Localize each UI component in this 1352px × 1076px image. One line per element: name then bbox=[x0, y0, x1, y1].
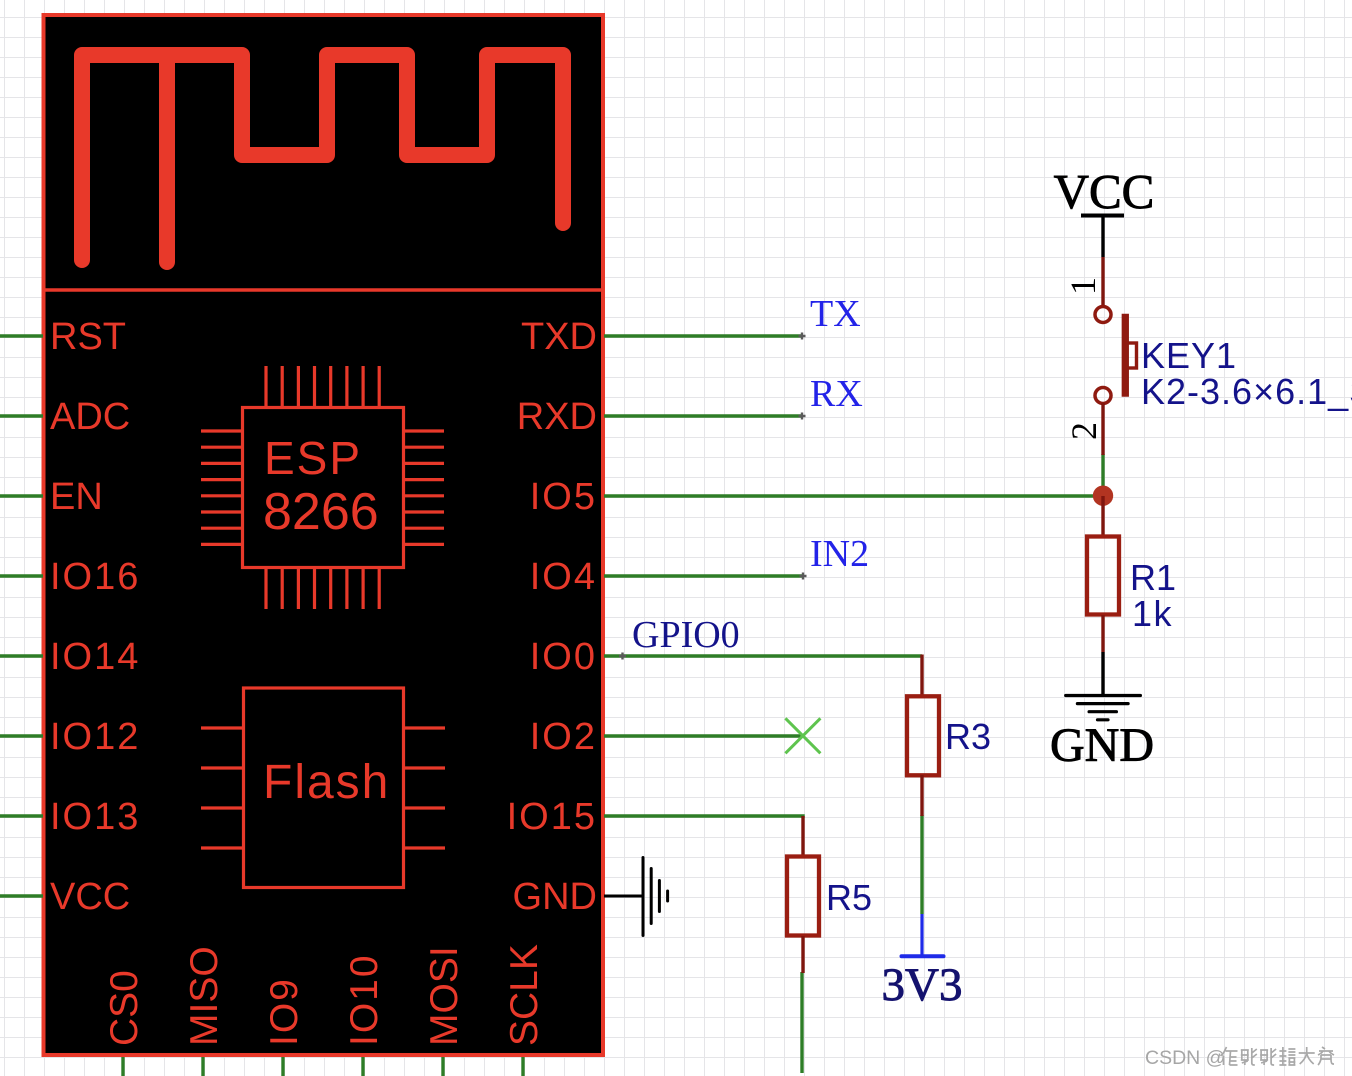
svg-text:RX: RX bbox=[810, 373, 863, 415]
GND wire black bbox=[1101, 652, 1104, 695]
antenna trace bbox=[82, 55, 563, 262]
resistor R5 pin bottom bbox=[801, 936, 804, 973]
wire IO5 to junction bbox=[604, 494, 1103, 497]
wire IO9 stub bbox=[281, 1057, 284, 1076]
svg-text:1: 1 bbox=[1063, 277, 1103, 295]
resistor R3 bbox=[907, 696, 939, 775]
svg-text:R3: R3 bbox=[945, 716, 991, 757]
KEY1 pin2 circle bbox=[1095, 388, 1111, 404]
svg-text:ADC: ADC bbox=[50, 396, 130, 438]
KEY1 actuator bump bbox=[1126, 343, 1137, 368]
resistor R1 pin bottom bbox=[1101, 615, 1104, 652]
resistor R1 pin top bbox=[1101, 496, 1104, 536]
VCC bar bbox=[1081, 214, 1124, 218]
wire CS0 stub bbox=[121, 1057, 124, 1076]
wire ADC bbox=[0, 414, 43, 417]
VCC wire black bbox=[1101, 216, 1104, 258]
svg-text:SCLK: SCLK bbox=[503, 944, 546, 1046]
wire-end cross GPIO0 bbox=[619, 653, 626, 660]
wire SCLK stub bbox=[521, 1057, 524, 1076]
wire R5 down bbox=[800, 972, 803, 1073]
svg-text:IO15: IO15 bbox=[507, 796, 597, 838]
svg-text:IO12: IO12 bbox=[50, 716, 140, 758]
wire MOSI stub bbox=[441, 1057, 444, 1076]
wire R3 to 3V3 bbox=[920, 815, 923, 914]
svg-text:VCC: VCC bbox=[50, 876, 130, 918]
svg-text:IO2: IO2 bbox=[530, 716, 597, 758]
wire KEY1 pin2 to junction bbox=[1101, 454, 1104, 496]
flash right pins bbox=[404, 728, 445, 848]
svg-text:3V3: 3V3 bbox=[882, 959, 963, 1011]
wire IO0 / GPIO0 net bbox=[604, 654, 922, 657]
chip Flash symbol bbox=[201, 688, 445, 888]
module divider line bbox=[43, 288, 603, 291]
wire RXD bbox=[604, 414, 802, 417]
svg-text:IO5: IO5 bbox=[530, 476, 597, 518]
svg-text:Flash: Flash bbox=[263, 756, 390, 809]
no-connect flag X on IO2 bbox=[785, 718, 820, 753]
wire VCC-left bbox=[0, 894, 43, 897]
svg-text:IO13: IO13 bbox=[50, 796, 140, 838]
ground symbol at module GND (rotated) bbox=[643, 858, 668, 936]
wire IO2 bbox=[604, 734, 803, 737]
chip right pins bbox=[404, 431, 444, 544]
svg-text:KEY1: KEY1 bbox=[1141, 335, 1237, 376]
svg-text:2: 2 bbox=[1064, 422, 1104, 440]
wire TXD bbox=[604, 334, 802, 337]
module U? ESP8266 body bbox=[44, 15, 604, 1055]
svg-text:IO16: IO16 bbox=[50, 556, 140, 598]
resistor R3 pin bottom bbox=[920, 775, 923, 816]
svg-text:R1: R1 bbox=[1130, 557, 1176, 598]
svg-text:8266: 8266 bbox=[263, 483, 379, 541]
svg-text:IN2: IN2 bbox=[810, 533, 869, 575]
wire IO12 bbox=[0, 734, 43, 737]
resistor R3 pin top bbox=[920, 655, 923, 697]
power flag 3V3 stem bbox=[920, 914, 923, 956]
wire-end cross IN2 bbox=[800, 573, 807, 580]
flash left pins bbox=[201, 728, 243, 848]
wire IO15 bbox=[604, 816, 803, 818]
svg-text:GPIO0: GPIO0 bbox=[632, 614, 740, 656]
chip top pins bbox=[266, 366, 379, 407]
junction node bbox=[1093, 486, 1113, 506]
wire IO14 bbox=[0, 654, 43, 657]
op-chip ESP8266 symbol body bbox=[201, 366, 444, 609]
svg-text:IO0: IO0 bbox=[530, 636, 597, 678]
wires: left side pins bbox=[0, 336, 1103, 1076]
svg-text:RXD: RXD bbox=[517, 396, 597, 438]
svg-text:IO14: IO14 bbox=[50, 636, 140, 678]
wire-end cross RXD bbox=[799, 413, 806, 420]
svg-text:GND: GND bbox=[513, 876, 597, 918]
KEY1 actuator bar bbox=[1122, 314, 1129, 397]
svg-text:CSDN @: CSDN @ bbox=[1145, 1047, 1225, 1069]
svg-text:RST: RST bbox=[50, 316, 126, 358]
wire IO4 bbox=[604, 574, 803, 577]
svg-text:CS0: CS0 bbox=[103, 970, 146, 1046]
wire-end cross TXD bbox=[799, 333, 806, 340]
svg-text:IO9: IO9 bbox=[263, 977, 306, 1046]
svg-text:K2-3.6×6.1_S: K2-3.6×6.1_S bbox=[1141, 371, 1352, 412]
wire IO13 bbox=[0, 814, 43, 817]
KEY1 pin2 stub bbox=[1101, 403, 1104, 455]
resistor R1 bbox=[1087, 537, 1119, 615]
resistor R5 pin top bbox=[801, 816, 804, 857]
svg-text:VCC: VCC bbox=[1054, 164, 1155, 219]
wire RST bbox=[0, 334, 43, 337]
wire EN bbox=[0, 494, 43, 497]
module GND pin wire bbox=[604, 895, 643, 898]
wire IO16 bbox=[0, 574, 43, 577]
wire MISO stub bbox=[201, 1057, 204, 1076]
svg-text:R5: R5 bbox=[826, 877, 872, 918]
chip bottom pins bbox=[266, 568, 379, 609]
wire IO10 stub bbox=[361, 1057, 364, 1076]
svg-text:IO4: IO4 bbox=[530, 556, 597, 598]
KEY1 pin1 circle bbox=[1095, 307, 1111, 323]
svg-text:TX: TX bbox=[810, 293, 861, 335]
svg-text:GND: GND bbox=[1050, 719, 1154, 772]
svg-text:TXD: TXD bbox=[521, 316, 597, 358]
svg-text:ESP: ESP bbox=[264, 432, 362, 484]
ground GND symbol bbox=[1066, 696, 1141, 720]
svg-text:1k: 1k bbox=[1132, 593, 1173, 634]
resistor R5 bbox=[787, 857, 819, 936]
chip left pins bbox=[201, 431, 242, 544]
svg-text:MISO: MISO bbox=[183, 946, 226, 1046]
KEY1 pin1 stub bbox=[1101, 257, 1104, 306]
svg-text:MOSI: MOSI bbox=[423, 946, 466, 1046]
svg-text:IO10: IO10 bbox=[343, 953, 386, 1046]
svg-text:EN: EN bbox=[50, 476, 103, 518]
3V3 bar bbox=[902, 954, 944, 958]
watermark CJK glyphs bbox=[1221, 1047, 1335, 1065]
